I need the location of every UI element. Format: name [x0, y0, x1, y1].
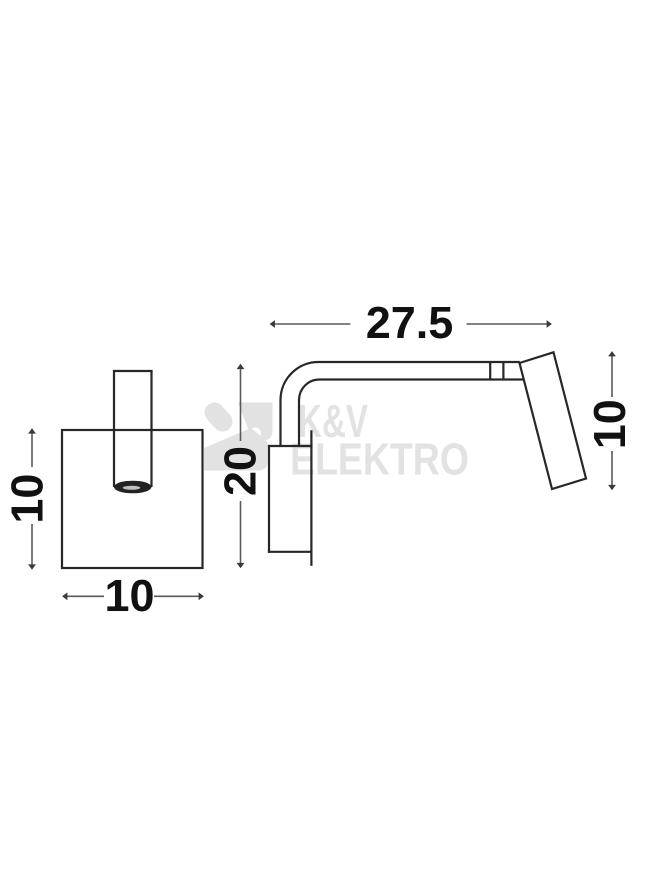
dimension bottom 10: [66, 595, 200, 597]
front view: wall plate square: [62, 430, 203, 568]
svg-text:ELEKTRO: ELEKTRO: [290, 434, 469, 485]
logo bottom wedge: [204, 428, 268, 471]
logo flag top-right: [238, 403, 273, 441]
dimension top 27.5: [274, 323, 549, 325]
watermark logo mark: [204, 403, 273, 471]
dimension right 10: [611, 355, 613, 487]
side view: lamp head: [520, 352, 587, 489]
side view: arm tube outer line: [281, 362, 520, 446]
svg-text:10: 10: [584, 399, 635, 449]
dimension 20: [240, 368, 242, 565]
logo capsule top-left: [215, 413, 223, 422]
dimension left 10: [31, 432, 33, 566]
svg-text:10: 10: [104, 570, 154, 621]
logo notch white: [250, 428, 261, 439]
side view: arm tube inner line: [299, 380, 524, 447]
svg-text:10: 10: [2, 474, 53, 524]
front view: lens ellipse: [114, 481, 152, 494]
svg-text:20: 20: [215, 446, 266, 496]
side view: wall line: [310, 430, 312, 566]
side view: mount box: [268, 445, 312, 553]
front view: spot cylinder: [113, 371, 153, 487]
svg-text:27.5: 27.5: [366, 297, 454, 348]
side view: tube joint ticks: [489, 362, 491, 380]
